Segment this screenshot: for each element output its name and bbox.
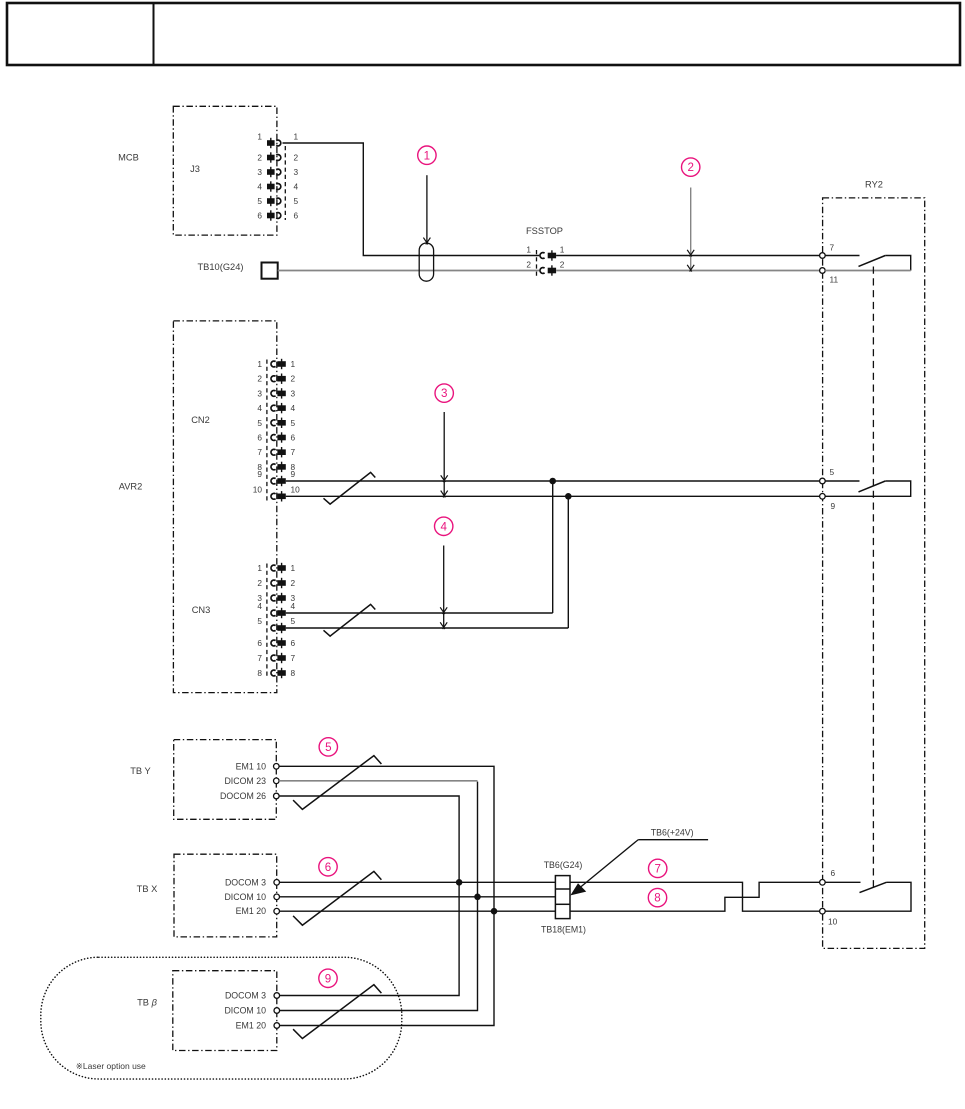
- wire TBX EM1-20 to terminal block TB18: [280, 910, 556, 912]
- callout circle 7: [649, 859, 667, 877]
- callout circle 2: [682, 158, 700, 176]
- relay contact 2 return path: [825, 481, 911, 496]
- CN2 pin 4 female socket: [271, 405, 276, 411]
- svg-text:4: 4: [257, 601, 262, 611]
- terminal block divider 2: [555, 903, 570, 905]
- svg-text:2: 2: [560, 260, 565, 270]
- CN3 pin 7 female socket: [271, 655, 276, 661]
- wire CN2-9 to RY2-5: [286, 480, 820, 482]
- J3 pin 5 female socket: [276, 198, 281, 204]
- TB beta terminal DICOM 10 circle: [274, 1008, 280, 1014]
- svg-text:7: 7: [257, 653, 262, 663]
- svg-text:4: 4: [257, 403, 262, 413]
- laser option group (dotted capsule): [41, 957, 402, 1079]
- FSSTOP pin 2 female socket: [540, 268, 545, 274]
- board AVR2 outline: [173, 321, 276, 693]
- svg-text:FSSTOP: FSSTOP: [526, 226, 563, 236]
- svg-text:9: 9: [291, 469, 296, 479]
- callout circle 5: [319, 738, 337, 756]
- junction node DOCOM: [456, 879, 463, 886]
- junction node DICOM: [474, 894, 481, 901]
- svg-text:5: 5: [325, 741, 331, 754]
- svg-text:3: 3: [291, 388, 296, 398]
- svg-text:9: 9: [257, 469, 262, 479]
- CN3 pin 3 male square: [277, 595, 285, 601]
- svg-text:4: 4: [294, 182, 299, 192]
- J3 pin 1 female socket: [276, 140, 281, 146]
- J3 pin 2 female socket: [276, 155, 281, 161]
- relay mechanical linkage (dashed): [872, 267, 874, 890]
- CN3 pin 6 male square: [277, 640, 285, 646]
- CN3 pin 1 tick: [281, 563, 283, 573]
- CN3 pin 4 tick: [281, 608, 283, 618]
- svg-text:5: 5: [294, 196, 299, 206]
- TB X terminal DOCOM 3 circle: [274, 880, 280, 886]
- svg-text:1: 1: [560, 245, 565, 255]
- TB X terminal EM1 20 circle: [274, 908, 280, 914]
- CN3 pin 2 female socket: [271, 580, 276, 586]
- J3 pin 4 male square: [267, 184, 275, 190]
- svg-text:1: 1: [257, 359, 262, 369]
- wire TBY DICOM-23 (gray) to corner: [279, 780, 477, 782]
- J3 pin 2 male square: [267, 155, 275, 161]
- svg-text:3: 3: [257, 388, 262, 398]
- callout TB6(+24V) arrow line: [576, 840, 639, 892]
- CN2 pin 8 tick: [281, 462, 283, 472]
- junction node on CN2-10 wire: [565, 493, 572, 500]
- CN2 pin 2 male square: [277, 376, 285, 382]
- svg-text:TB10(G24): TB10(G24): [198, 262, 244, 272]
- relay contact 3 blade: [860, 882, 887, 892]
- svg-text:DOCOM 3: DOCOM 3: [225, 877, 266, 887]
- svg-text:5: 5: [291, 418, 296, 428]
- title block table: [7, 3, 960, 65]
- svg-text:7: 7: [257, 447, 262, 457]
- svg-text:2: 2: [526, 260, 531, 270]
- wire CN3-4 to junction: [286, 612, 553, 614]
- svg-text:7: 7: [291, 653, 296, 663]
- connector J3 housing dashed line: [284, 146, 286, 220]
- CN3 pin 5 female socket: [271, 625, 276, 631]
- svg-text:6: 6: [294, 211, 299, 221]
- callout 4 arrow: [443, 546, 445, 628]
- junction node on CN2-9 wire: [549, 478, 556, 485]
- svg-text:1: 1: [257, 132, 262, 142]
- J3 pin 3 tick: [270, 167, 272, 177]
- wire junction to CN3-4 (vertical): [552, 481, 554, 613]
- RY2 pin 11 terminal: [820, 268, 826, 274]
- CN2 pin 7 male square: [277, 449, 285, 455]
- svg-text:6: 6: [325, 861, 331, 874]
- connector CN2 housing dashed line: [266, 360, 268, 502]
- TB Y terminal DOCOM 26 circle: [274, 793, 280, 799]
- callout 2 arrow (gray): [690, 188, 692, 270]
- wire J3-1 to FSSTOP-1: [283, 143, 540, 256]
- svg-text:5: 5: [257, 616, 262, 626]
- svg-text:TB X: TB X: [137, 884, 158, 894]
- J3 pin 1 male square: [267, 140, 275, 146]
- svg-text:5: 5: [830, 467, 835, 477]
- CN3 pin 8 male square: [277, 670, 285, 676]
- svg-text:1: 1: [294, 132, 299, 142]
- svg-text:8: 8: [654, 892, 660, 905]
- J3 pin 6 male square: [267, 213, 275, 219]
- svg-text:4: 4: [291, 601, 296, 611]
- RY2 pin 5 terminal: [820, 478, 826, 484]
- J3 pin 4 tick: [270, 181, 272, 191]
- svg-text:DOCOM 3: DOCOM 3: [225, 991, 266, 1001]
- FSSTOP pin 1 female socket: [540, 253, 545, 259]
- svg-text:6: 6: [257, 211, 262, 221]
- RY2 pin 7 terminal: [820, 253, 826, 259]
- wire TB6 to RY2-10 (with crossover): [570, 882, 820, 911]
- CN2 pin 3 male square: [277, 391, 285, 397]
- terminal block TB6/TB18 body: [555, 876, 570, 919]
- svg-text:9: 9: [325, 972, 331, 985]
- TB Y terminal EM1 10 circle: [274, 764, 280, 770]
- CN2 pin 2 female socket: [271, 376, 276, 382]
- TB beta terminal EM1 20 circle: [274, 1023, 280, 1029]
- svg-text:6: 6: [257, 638, 262, 648]
- connector CN3 housing dashed line: [266, 564, 268, 679]
- svg-text:5: 5: [257, 418, 262, 428]
- svg-text:2: 2: [294, 153, 299, 163]
- CN2 pin 3 female socket: [271, 390, 276, 396]
- RY2 pin 10 terminal: [820, 908, 826, 914]
- svg-text:7: 7: [291, 447, 296, 457]
- wire CN3-5 to junction: [286, 627, 569, 629]
- svg-text:2: 2: [257, 153, 262, 163]
- wire TBX DICOM-10 to terminal block: [280, 896, 556, 898]
- junction node EM1: [491, 908, 498, 915]
- CN3 pin 5 tick: [281, 623, 283, 633]
- svg-text:TB Y: TB Y: [130, 766, 151, 776]
- svg-text:DOCOM 26: DOCOM 26: [220, 791, 266, 801]
- CN2 pin 4 tick: [281, 403, 283, 413]
- twisted pair mark TB beta: [293, 985, 381, 1039]
- CN2 pin 6 female socket: [271, 435, 276, 441]
- relay contact 1 return path: [885, 256, 910, 271]
- J3 pin 4 female socket: [276, 184, 281, 190]
- callout TB6(+24V) arrowhead: [570, 883, 586, 895]
- wire TBX DOCOM-3 to terminal block TB6: [280, 881, 556, 883]
- J3 pin 6 female socket: [276, 213, 281, 219]
- CN2 pin 5 male square: [277, 420, 285, 426]
- CN2 pin 7 female socket: [271, 449, 276, 455]
- J3 pin 1 tick: [270, 138, 272, 148]
- svg-text:TB β: TB β: [137, 998, 157, 1008]
- CN2 pin 1 male square: [277, 361, 285, 367]
- svg-text:EM1 10: EM1 10: [236, 761, 266, 771]
- CN2 pin 10 male square: [277, 494, 285, 500]
- twisted pair mark TB X: [293, 871, 381, 925]
- wire FSSTOP-1 to RY2-7: [556, 255, 820, 257]
- callout 1 arrow: [426, 175, 428, 242]
- CN2 pin 9 female socket: [271, 478, 276, 484]
- wire TBY DOCOM-26 down to TB-beta DOCOM-3: [279, 796, 459, 996]
- wire FSSTOP-2 to RY2-11 (G24 gray): [556, 270, 820, 272]
- svg-text:2: 2: [257, 374, 262, 384]
- J3 pin 5 tick: [270, 196, 272, 206]
- CN3 pin 1 male square: [277, 565, 285, 571]
- CN2 pin 5 tick: [281, 418, 283, 428]
- CN2 pin 9 tick: [281, 476, 283, 486]
- svg-text:6: 6: [291, 433, 296, 443]
- svg-text:4: 4: [257, 182, 262, 192]
- twisted pair mark TB Y: [293, 756, 381, 810]
- wire CN2-10 to RY2-9: [286, 495, 820, 497]
- svg-text:2: 2: [687, 161, 693, 174]
- callout circle 1: [418, 146, 436, 164]
- svg-text:TB18(EM1): TB18(EM1): [541, 924, 586, 934]
- svg-text:※Laser option use: ※Laser option use: [76, 1061, 146, 1071]
- svg-text:10: 10: [291, 484, 301, 494]
- svg-text:7: 7: [654, 863, 660, 876]
- callout circle 4: [435, 517, 453, 535]
- CN2 pin 10 female socket: [271, 493, 276, 499]
- svg-text:1: 1: [291, 359, 296, 369]
- svg-text:2: 2: [291, 374, 296, 384]
- relay contact 3 return path: [825, 882, 911, 911]
- svg-text:5: 5: [257, 196, 262, 206]
- svg-text:10: 10: [253, 484, 263, 494]
- callout circle 8: [648, 888, 666, 906]
- FSSTOP housing dashed line: [536, 250, 538, 276]
- relay RY2 outline: [823, 198, 925, 949]
- CN3 pin 2 tick: [281, 578, 283, 588]
- relay contact 3 fixed lead: [825, 881, 860, 883]
- svg-text:DICOM 23: DICOM 23: [224, 776, 266, 786]
- CN2 pin 10 tick: [281, 491, 283, 501]
- svg-text:5: 5: [291, 616, 296, 626]
- relay contact 1 return to pin 11 (gray): [825, 270, 911, 272]
- board TB beta outline: [173, 971, 277, 1051]
- svg-text:DICOM 10: DICOM 10: [224, 1006, 266, 1016]
- CN2 pin 4 male square: [277, 405, 285, 411]
- svg-text:CN3: CN3: [192, 605, 211, 615]
- callout 3 arrow: [443, 412, 445, 496]
- svg-text:2: 2: [257, 578, 262, 588]
- CN3 pin 8 female socket: [271, 670, 276, 676]
- CN3 pin 3 female socket: [271, 595, 276, 601]
- FSSTOP pin 1 tick: [551, 250, 553, 260]
- board TB X outline: [174, 854, 277, 937]
- relay contact 2 fixed lead: [825, 480, 859, 482]
- CN3 pin 6 female socket: [271, 640, 276, 646]
- svg-text:6: 6: [831, 868, 836, 878]
- svg-text:11: 11: [830, 275, 839, 285]
- CN3 pin 4 female socket: [271, 610, 276, 616]
- CN2 pin 1 tick: [281, 359, 283, 369]
- svg-text:8: 8: [257, 668, 262, 678]
- RY2 pin 6 terminal: [820, 880, 826, 886]
- wire TBY EM1-10 down to TB-beta EM1-20: [279, 766, 494, 1025]
- terminal block divider 1: [555, 888, 570, 890]
- J3 pin 6 tick: [270, 210, 272, 220]
- CN2 pin 8 male square: [277, 464, 285, 470]
- CN3 pin 4 male square: [277, 610, 285, 616]
- CN2 pin 1 female socket: [271, 361, 276, 367]
- svg-text:6: 6: [257, 433, 262, 443]
- RY2 pin 9 terminal: [820, 494, 826, 500]
- svg-text:1: 1: [526, 245, 531, 255]
- svg-text:9: 9: [831, 501, 836, 511]
- CN2 pin 6 male square: [277, 435, 285, 441]
- svg-text:CN2: CN2: [191, 415, 210, 425]
- svg-text:1: 1: [257, 563, 262, 573]
- svg-text:2: 2: [291, 578, 296, 588]
- svg-text:1: 1: [424, 149, 430, 162]
- svg-text:3: 3: [257, 167, 262, 177]
- CN2 pin 7 tick: [281, 447, 283, 457]
- relay contact 1 blade: [859, 256, 886, 267]
- FSSTOP pin 1 male square: [548, 253, 556, 259]
- svg-text:DICOM 10: DICOM 10: [224, 892, 266, 902]
- wire junction to CN3-5 (vertical): [567, 496, 569, 628]
- svg-text:8: 8: [291, 668, 296, 678]
- TB beta terminal DOCOM 3 circle: [274, 993, 280, 999]
- CN2 pin 9 male square: [277, 478, 285, 484]
- J3 pin 3 female socket: [276, 169, 281, 175]
- callout circle 9: [319, 969, 337, 987]
- svg-text:4: 4: [440, 520, 447, 533]
- svg-text:EM1 20: EM1 20: [236, 906, 266, 916]
- svg-text:3: 3: [441, 387, 447, 400]
- FSSTOP pin 2 tick: [551, 265, 553, 275]
- svg-text:7: 7: [830, 242, 835, 252]
- svg-text:10: 10: [828, 917, 838, 927]
- board TB Y outline: [174, 740, 277, 820]
- wire TB10(G24) to FSSTOP-2 (G24 gray): [278, 270, 540, 272]
- CN3 pin 7 male square: [277, 655, 285, 661]
- board MCB outline: [173, 106, 277, 235]
- twisted pair mark CN3-4/5: [324, 604, 376, 636]
- svg-text:EM1 20: EM1 20: [236, 1021, 266, 1031]
- CN3 pin 2 male square: [277, 580, 285, 586]
- svg-text:4: 4: [291, 403, 296, 413]
- svg-text:MCB: MCB: [118, 153, 139, 163]
- svg-text:3: 3: [294, 167, 299, 177]
- svg-text:AVR2: AVR2: [119, 481, 143, 491]
- J3 pin 5 male square: [267, 198, 275, 204]
- J3 pin 3 male square: [267, 169, 275, 175]
- CN2 pin 5 female socket: [271, 420, 276, 426]
- callout circle 3: [435, 384, 453, 402]
- CN3 pin 3 tick: [281, 593, 283, 603]
- callout TB6(+24V) underline: [638, 839, 708, 841]
- relay contact 2 blade: [859, 481, 886, 492]
- title block divider: [153, 3, 155, 65]
- relay contact 1 fixed lead: [825, 255, 859, 257]
- CN2 pin 2 tick: [281, 374, 283, 384]
- wire TB18 to RY2-6 (with crossover): [570, 882, 820, 911]
- svg-text:6: 6: [291, 638, 296, 648]
- terminal TB10(G24) square: [262, 263, 278, 279]
- CN3 pin 6 tick: [281, 638, 283, 648]
- CN3 pin 1 female socket: [271, 565, 276, 571]
- svg-text:J3: J3: [190, 164, 200, 174]
- CN2 pin 8 female socket: [271, 464, 276, 470]
- callout circle 6: [319, 858, 337, 876]
- wire DICOM vertical corner to TB-beta DICOM-10: [280, 782, 478, 1011]
- FSSTOP pin 2 male square: [548, 268, 556, 274]
- J3 pin 2 tick: [270, 152, 272, 162]
- CN2 pin 6 tick: [281, 432, 283, 442]
- TB Y terminal DICOM 23 circle: [274, 778, 280, 784]
- CN3 pin 5 male square: [277, 625, 285, 631]
- svg-text:TB6(+24V): TB6(+24V): [651, 827, 694, 837]
- svg-text:RY2: RY2: [865, 180, 883, 190]
- noise filter capsule: [419, 243, 433, 281]
- svg-text:TB6(G24): TB6(G24): [544, 860, 583, 870]
- CN3 pin 7 tick: [281, 653, 283, 663]
- CN2 pin 3 tick: [281, 388, 283, 398]
- TB X terminal DICOM 10 circle: [274, 894, 280, 900]
- svg-text:1: 1: [291, 563, 296, 573]
- CN3 pin 8 tick: [281, 668, 283, 678]
- twisted pair mark CN2-9/10: [324, 472, 376, 504]
